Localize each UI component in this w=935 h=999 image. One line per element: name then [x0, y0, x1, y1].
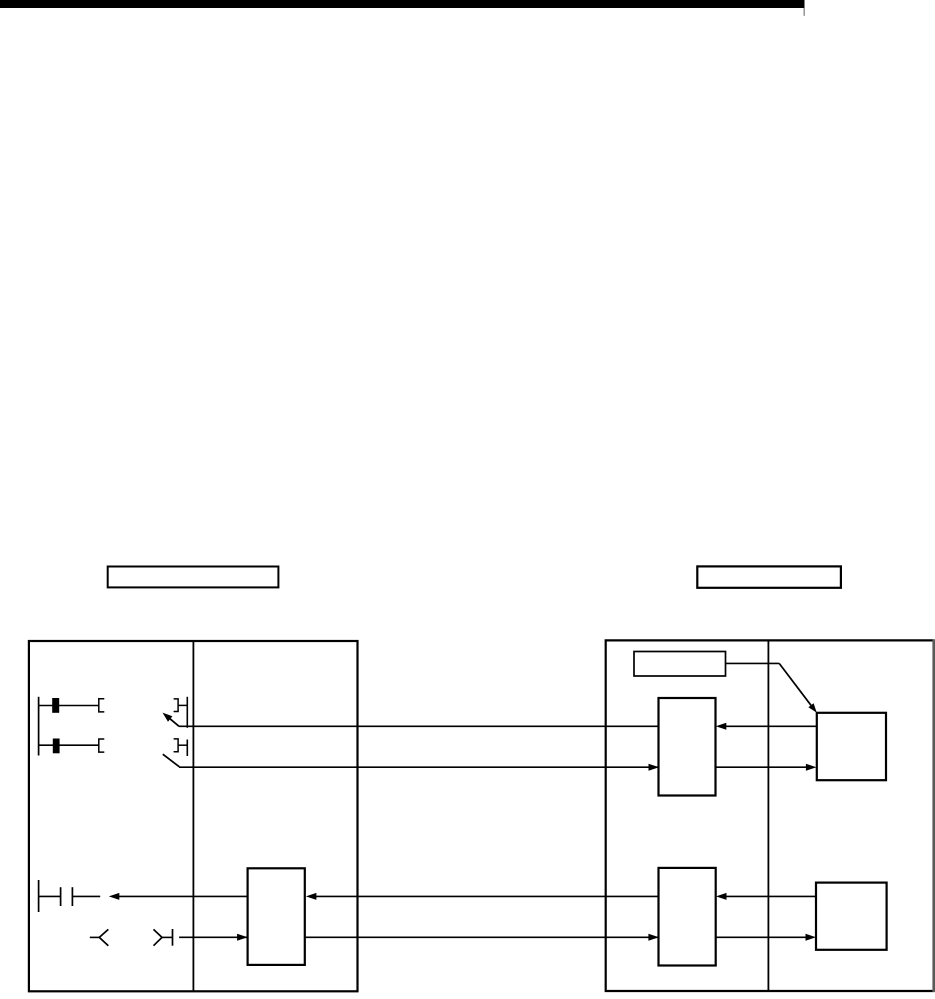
- connector C3 pin bar: [172, 929, 174, 946]
- arrowhead leader into S1: [808, 703, 816, 713]
- plug P1 bracket: [174, 699, 179, 712]
- arrowhead WD into S2: [806, 934, 817, 941]
- arrowhead W2 into R2: [649, 764, 660, 771]
- right unit divider: [767, 640, 769, 991]
- wire WB (R2 to S1): [716, 766, 813, 768]
- plug P2 pin bar: [186, 740, 188, 757]
- arrow A1 (insertion arrow, up-left): [168, 717, 180, 727]
- wire W3 mid segment (R3 to R1): [309, 895, 659, 897]
- label box L1 (left caption box, empty): [108, 567, 279, 588]
- contact K2 lead: [39, 744, 100, 746]
- arrowhead W4 into R1: [237, 934, 248, 941]
- contact K2 socket bracket: [99, 739, 105, 752]
- contact K1 body (filled): [52, 698, 59, 713]
- arrowhead WA into R2: [716, 723, 727, 730]
- contact K1 socket bracket: [99, 699, 105, 712]
- leader diagonal into S1: [779, 663, 811, 705]
- caption box T1 (right unit): [634, 652, 726, 677]
- connector C3 fork: [154, 929, 163, 945]
- arrowhead W3 into R1 right edge: [306, 893, 317, 900]
- header rule bar: [0, 0, 805, 8]
- plug P2 bracket: [174, 739, 179, 752]
- wire W1 (plug P1 to receiver R2): [179, 725, 659, 727]
- connector C1 post: [38, 880, 40, 912]
- connector C2 tail: [90, 936, 100, 938]
- device block S1 (right unit upper): [817, 713, 886, 780]
- wire W4 left segment (connector C3 to R1): [179, 936, 248, 938]
- label box L2 (right caption box, empty): [697, 566, 841, 587]
- wire WD (R3 to S2): [716, 936, 812, 938]
- connector C2 fork: [99, 929, 108, 945]
- arrowhead W4 into R3: [648, 934, 659, 941]
- arrowhead WB into S1: [806, 764, 817, 771]
- leader line from T1: [726, 662, 780, 664]
- connector C1 lead: [39, 895, 61, 897]
- wire W2 (plug P2 to receiver R2): [179, 766, 659, 768]
- plug P1 pin bar: [186, 697, 188, 728]
- left unit outer box: [29, 641, 358, 991]
- terminal bus bar (left unit): [38, 697, 40, 756]
- receiver block R2 (right unit upper): [659, 698, 716, 796]
- wire WA (S1 to R2): [719, 725, 817, 727]
- connector C1 plate b: [71, 887, 73, 906]
- connector C1 plate a: [60, 887, 62, 906]
- device block S2 (right unit lower): [816, 883, 887, 950]
- contact K2 body (filled): [53, 739, 60, 754]
- interface block R1 (left unit): [248, 868, 305, 965]
- wire WC (S2 to R3): [719, 895, 816, 897]
- connector C1 tail: [72, 895, 100, 897]
- contact K1 lead: [39, 705, 100, 707]
- connector C3 stem: [162, 936, 173, 938]
- receiver block R3 (right unit lower): [659, 868, 716, 966]
- arrowhead W3 at connector C1: [109, 893, 120, 900]
- left unit divider: [192, 641, 194, 991]
- header bar end tick: [803, 8, 805, 16]
- wire W3 left segment (R1 to connector C1): [112, 895, 248, 897]
- plug P1 stem: [178, 704, 187, 706]
- wire W4 mid segment (R1 to R3): [305, 936, 659, 938]
- arrowhead WC into R3: [716, 893, 727, 900]
- right unit outer box: [606, 640, 934, 991]
- switch blade B2: [163, 754, 179, 767]
- plug P2 stem: [178, 744, 187, 746]
- right unit right border (heavy, page edge): [932, 639, 935, 992]
